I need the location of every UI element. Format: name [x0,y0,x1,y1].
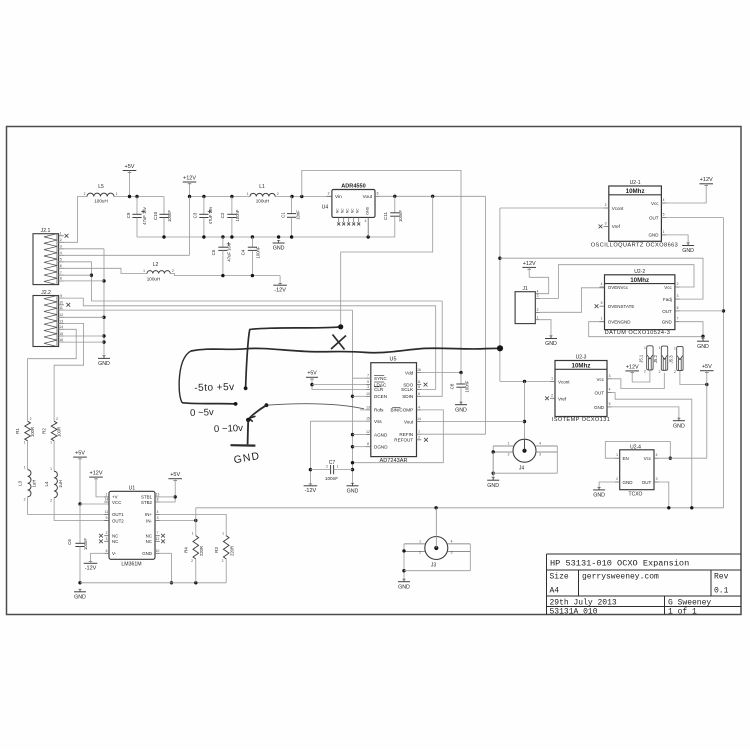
hand GND label [233,451,261,466]
capacitor C11 [383,196,403,237]
wire L4 to OUT2 [54,498,109,521]
svg-text:J2.1: J2.1 [41,228,51,234]
wire U2-2 OVENGND to ground [589,322,703,337]
svg-text:U5: U5 [390,357,397,363]
svg-text:OUT: OUT [662,309,672,314]
svg-text:C6: C6 [67,539,72,545]
svg-text:J5.1: J5.1 [638,354,643,363]
svg-text:1: 1 [616,453,618,457]
svg-text:2: 2 [644,370,646,374]
svg-text:16: 16 [417,368,421,372]
svg-text:OVENVcc: OVENVcc [608,285,629,290]
svg-text:GND: GND [594,405,605,410]
DAC U5 AD7243AR [366,357,421,464]
svg-text:L1: L1 [259,184,265,190]
svg-text:C4: C4 [241,249,246,255]
svg-text:R2: R2 [42,428,47,434]
wire comparator ground rail [80,559,226,585]
svg-text:SYNC: SYNC [374,376,387,381]
svg-text:3: 3 [451,551,453,555]
wire J2.1 pin4 to +12V [59,197,190,256]
svg-text:8: 8 [157,498,159,502]
wire Fadj feed [500,258,703,299]
+12V flag (J1/oven) [522,261,536,278]
svg-text:5: 5 [418,385,420,389]
svg-text:IN+: IN+ [145,512,152,517]
oscillator U2-4 (TCXO) [615,444,659,497]
svg-text:13: 13 [156,492,160,496]
svg-text:+12V: +12V [523,261,536,267]
wire -12V rail [170,274,280,286]
connector J4 [493,439,557,471]
hand junction blob [497,345,503,351]
svg-text:+12V: +12V [700,177,713,183]
hand X cross-out [331,335,346,350]
svg-text:GND: GND [662,320,673,325]
hand arc left [179,351,191,403]
svg-text:12: 12 [59,313,63,317]
wire J2.2 pin13 to R2 [54,324,84,422]
svg-text:LM361M: LM361M [121,562,141,568]
svg-text:2: 2 [508,452,510,456]
wire ground rail (decoupling) [137,235,395,238]
svg-text:GND: GND [347,488,359,494]
svg-text:NC: NC [112,534,118,539]
capacitor C2 [220,197,240,238]
no-connect J2.2 pin 10 [66,303,70,307]
svg-text:3: 3 [605,221,607,225]
svg-text:1: 1 [644,346,646,350]
svg-text:NC: NC [356,208,360,213]
wire digital line 2 [59,298,436,306]
svg-text:2: 2 [30,417,32,421]
svg-text:7: 7 [60,271,62,275]
svg-text:1: 1 [551,376,553,380]
wire U2-1 GND [667,235,689,245]
svg-text:Vcc: Vcc [664,285,672,290]
svg-text:10: 10 [156,549,160,553]
capacitor C7 [310,460,352,481]
svg-text:1: 1 [106,492,108,496]
svg-text:SCLK: SCLK [401,387,414,392]
+12V flag (U1) [89,471,109,497]
hand GND symbol [231,420,256,446]
svg-text:1: 1 [337,465,339,469]
svg-text:47uF 16v: 47uF 16v [208,206,213,224]
-12V flag (U1 V-) [84,553,105,571]
svg-text:Vss: Vss [374,419,382,424]
no-connect U5 REFOUT [424,438,428,442]
wire U2-1 OUT [667,217,724,219]
svg-text:GND: GND [545,341,557,347]
svg-text:-5to +5v: -5to +5v [194,382,235,394]
inductor L4 [44,467,63,503]
svg-text:6: 6 [418,392,420,396]
svg-text:4: 4 [663,198,665,202]
svg-text:+5V: +5V [75,451,85,457]
svg-text:GND: GND [98,361,110,367]
ground (U1 rail) [74,589,86,600]
wire SDIN [421,301,442,396]
svg-text:4: 4 [601,282,603,286]
inductor L2 [143,262,174,282]
wire U2-4 EN loop [605,442,672,460]
svg-text:HP 53131-010 OCXO Expansion: HP 53131-010 OCXO Expansion [550,559,689,569]
svg-text:2: 2 [84,192,86,196]
svg-text:100nF: 100nF [83,538,88,550]
svg-text:5: 5 [601,301,603,305]
+5V flag (L5 rail) [123,164,137,197]
svg-text:6: 6 [106,549,108,553]
svg-text:GND: GND [487,483,499,489]
svg-text:10: 10 [366,392,370,396]
wire IN- node [160,508,198,536]
svg-text:1: 1 [143,269,145,273]
svg-text:GND: GND [697,344,709,350]
svg-text:2: 2 [551,393,553,397]
svg-text:100nF: 100nF [256,246,261,258]
svg-text:2: 2 [537,308,539,312]
svg-text:L2: L2 [153,262,159,268]
svg-text:ISOTEMP OCXO131: ISOTEMP OCXO131 [552,417,610,423]
wire L3 to OUT1 [28,497,109,515]
+5V flag (U1 left) [73,451,109,506]
wire REFIN feed [421,196,485,434]
wire +5V stem down [706,371,708,459]
svg-text:OUT2: OUT2 [112,518,124,523]
svg-text:9: 9 [367,380,369,384]
svg-text:-12V: -12V [274,288,286,294]
svg-text:3: 3 [677,294,679,298]
svg-text:NC: NC [336,208,340,213]
svg-text:GND: GND [398,584,410,590]
svg-text:C9: C9 [126,212,131,218]
svg-text:2: 2 [56,417,58,421]
connector J2.2 [33,290,64,347]
svg-text:4: 4 [537,290,539,294]
svg-text:R1: R1 [15,428,20,434]
svg-text:2: 2 [277,192,279,196]
svg-text:3: 3 [539,452,541,456]
wire R1 to L3 [27,441,29,470]
svg-text:+5V: +5V [125,164,135,170]
jumper J5.3 [668,346,683,374]
hand wire to Rofs [265,403,365,408]
svg-text:GND: GND [273,246,285,252]
svg-text:G Sweeney: G Sweeney [668,599,711,608]
wire +5V rail [114,195,164,198]
svg-text:100nF: 100nF [325,476,338,481]
svg-text:2: 2 [106,531,108,535]
svg-text:U2-1: U2-1 [630,180,641,186]
svg-text:GND: GND [142,551,152,556]
svg-text:47uF 16V: 47uF 16V [227,243,232,261]
svg-text:3: 3 [537,294,539,298]
ground (U2-4) [593,487,605,498]
svg-text:29th July 2013: 29th July 2013 [550,599,617,608]
svg-text:11: 11 [59,306,63,310]
svg-text:1uH: 1uH [32,480,37,488]
wire U2-3 Vcc to J5.2 [612,373,665,389]
svg-text:OSCILLOQUARTZ OCXO8663: OSCILLOQUARTZ OCXO8663 [591,243,679,249]
wire digital line 3 / SYNC chain [59,310,371,486]
svg-text:1: 1 [24,441,26,445]
connector J2.1 [33,228,64,284]
wire 10MHz output bus [722,218,725,508]
svg-text:L5: L5 [98,184,104,190]
svg-text:7: 7 [157,531,159,535]
svg-text:100nF: 100nF [398,210,403,222]
svg-text:10Mhz: 10Mhz [626,188,645,195]
svg-text:8: 8 [367,442,369,446]
svg-text:100uH: 100uH [147,277,161,282]
jumper J5.1 [638,346,653,374]
no-connect U1 right NCs [155,534,165,543]
svg-text:GND: GND [649,233,660,238]
svg-text:+12V: +12V [626,364,639,370]
svg-text:+5V: +5V [307,371,317,377]
svg-text:DCEN: DCEN [374,394,387,399]
svg-text:C1: C1 [281,212,286,218]
svg-text:VCC: VCC [112,500,121,505]
inductor L5 [84,184,118,203]
wire U4 GND pin4 [365,217,369,237]
svg-text:14: 14 [417,417,421,421]
svg-text:3: 3 [656,477,658,481]
svg-text:3: 3 [367,385,369,389]
svg-text:4: 4 [609,388,611,392]
resistor R1 [15,417,35,445]
ground (decoupling rail) [273,240,285,251]
svg-text:A4: A4 [550,587,560,596]
svg-text:V-: V- [112,551,117,556]
hand wire long squiggle [191,348,500,353]
svg-text:0 ~5v: 0 ~5v [190,407,214,419]
svg-text:2: 2 [677,282,679,286]
svg-text:C11: C11 [383,212,388,220]
svg-text:CLR: CLR [374,387,384,392]
svg-text:1: 1 [116,192,118,196]
no-connect U1 left NCs [99,534,109,543]
svg-text:Vref: Vref [558,396,567,401]
svg-text:100R: 100R [30,427,35,437]
svg-text:1: 1 [50,467,52,471]
comparator U1 LM361M [104,486,160,568]
wire C6 to ground rail [78,547,81,585]
svg-text:1 of 1: 1 of 1 [668,608,697,617]
svg-text:0 ~10v: 0 ~10v [214,423,244,435]
wire ground bus (J2) [59,249,106,358]
svg-text:-12V: -12V [85,566,97,572]
svg-text:NC: NC [112,539,118,544]
svg-text:11: 11 [417,380,421,384]
svg-text:12: 12 [156,537,160,541]
capacitor C3 [193,197,214,238]
+5V flag (LDAC/CLR) [306,371,318,379]
wire +5V to U2-4 Vcc [659,457,707,459]
svg-text:4: 4 [656,453,658,457]
svg-text:100nF: 100nF [465,380,470,392]
svg-text:GND: GND [593,493,605,499]
svg-text:-12V: -12V [305,488,317,494]
svg-text:1: 1 [192,532,194,536]
wire J1 pin3 to U2-2 Vcc [540,265,694,299]
capacitor C9 [126,197,147,238]
svg-text:13: 13 [59,319,63,323]
svg-text:Size: Size [550,573,569,582]
wire +12V to J1 pin4 [529,277,549,293]
oscillator U2-1 (OCXO8663) [591,180,679,249]
ground (C8) [455,402,467,413]
svg-text:1: 1 [663,230,665,234]
svg-text:100nF: 100nF [235,209,240,221]
svg-text:1: 1 [247,192,249,196]
oscillator U2-2 (DATUM) [595,269,680,336]
svg-text:1: 1 [418,430,420,434]
ground (J1) [545,336,557,347]
svg-text:3: 3 [60,245,62,249]
svg-text:+5V: +5V [702,364,712,370]
hand label 0~10v [214,423,244,435]
svg-text:C2: C2 [220,212,225,218]
svg-text:gerrysweeney.com: gerrysweeney.com [582,573,659,582]
svg-text:100uH: 100uH [94,198,108,203]
svg-text:1: 1 [508,442,510,446]
hand label 0~5v [190,407,214,419]
drawing frame border [7,127,742,615]
svg-text:6: 6 [677,306,679,310]
svg-text:NC: NC [146,539,152,544]
wire BIN/COMP to ground [353,410,444,463]
wire J1 pin2 to OVENVcc [540,288,605,313]
svg-text:OUT: OUT [649,215,659,220]
wire U2-2 GND [680,322,705,341]
hand arrow [249,405,266,421]
wire U2-1 Vcc to +12V [667,184,707,203]
svg-text:2: 2 [172,269,174,273]
svg-text:220R: 220R [230,546,235,556]
svg-text:Fadj: Fadj [663,297,672,302]
ground (U5 AGND/DGND) [347,483,359,494]
svg-text:GND: GND [366,206,370,214]
svg-text:2: 2 [605,203,607,207]
svg-text:OVENSTATE: OVENSTATE [608,304,635,309]
svg-text:3: 3 [609,374,611,378]
ground (U2-1) [682,243,694,254]
svg-text:4: 4 [539,442,541,446]
wire J4 center to Vcont [523,381,526,439]
svg-text:100nF: 100nF [167,210,172,222]
wire J2.1 pin7 tie [59,274,92,276]
svg-text:+12V: +12V [183,175,196,181]
svg-text:Vdd: Vdd [405,370,414,375]
svg-text:1: 1 [24,466,26,470]
inductor L3 [18,466,37,502]
title block [547,554,742,617]
svg-text:OVENGND: OVENGND [608,320,632,325]
svg-text:J2.2: J2.2 [41,290,51,296]
svg-text:L4: L4 [44,481,49,487]
svg-text:R4: R4 [184,547,189,553]
svg-text:2: 2 [659,370,661,374]
svg-text:14: 14 [105,498,109,502]
capacitor C8 [450,373,470,404]
wire U4 Vout rail [380,195,486,198]
svg-text:4: 4 [451,539,453,543]
svg-text:Vcc: Vcc [596,377,604,382]
svg-text:53131A_010: 53131A_010 [550,608,598,617]
-12V flag (filter) [273,283,287,293]
svg-text:4: 4 [418,405,420,409]
wire +12V rail [188,195,332,198]
wire U2-3 GND [612,407,679,420]
svg-text:IN-: IN- [146,518,152,523]
svg-text:7: 7 [677,317,679,321]
svg-text:5: 5 [663,213,665,217]
svg-text:SDIN: SDIN [402,394,413,399]
svg-text:7: 7 [367,374,369,378]
wire Vcont bus [498,208,603,381]
wire +5V to LDAC/CLR [310,377,366,389]
svg-text:L3: L3 [18,481,23,487]
svg-text:GND: GND [623,480,634,485]
svg-text:100uH: 100uH [256,198,270,203]
svg-text:+12V: +12V [90,471,103,477]
jumper J5.2 [653,346,668,374]
wire J4 shield to ground [492,446,558,480]
svg-text:5: 5 [60,258,62,262]
svg-text:Vcc: Vcc [651,201,659,206]
wire Rofs stub [360,409,366,411]
svg-text:U2-3: U2-3 [576,355,587,361]
wire J3 shield to ground [402,544,470,581]
svg-text:4: 4 [157,510,159,514]
svg-text:J4: J4 [519,466,525,472]
wire J2.1 pin6 to L2 [59,268,147,273]
connector J3 [404,508,470,569]
+12V flag (J5.1) [625,364,650,382]
svg-text:TCXO: TCXO [629,492,643,498]
svg-text:15: 15 [366,417,370,421]
svg-text:C5: C5 [211,249,216,255]
-12V flag (U5) [304,484,318,494]
wire J5.3 to +5V [680,371,709,386]
svg-text:2: 2 [616,477,618,481]
+12V flag (main rail) [183,175,197,196]
svg-text:OUT: OUT [642,480,652,485]
svg-text:2: 2 [326,465,328,469]
wire R2 to L4 [53,441,55,471]
svg-text:9: 9 [106,516,108,520]
svg-text:ADR4550: ADR4550 [341,183,366,189]
svg-text:GND: GND [455,407,467,413]
capacitor C6 [67,538,88,550]
wire U2-4 OUT to bus [659,482,669,508]
voltage reference U4 ADR4550 [322,183,380,225]
svg-text:1: 1 [222,532,224,536]
wire IN+ to R3 [160,514,226,535]
svg-text:10Mhz: 10Mhz [572,363,591,370]
svg-text:Rofs: Rofs [374,408,384,413]
wire U5 Vout [421,421,524,423]
svg-text:3: 3 [106,537,108,541]
ground (J4) [487,478,499,489]
svg-text:BIN/COMP: BIN/COMP [390,408,413,413]
no-connect J2.1 pin 1 [65,234,69,238]
wire J2.2 pin14 to R1 [28,329,77,421]
svg-text:10: 10 [59,301,63,305]
wire 10MHz bus bottom [196,506,724,509]
